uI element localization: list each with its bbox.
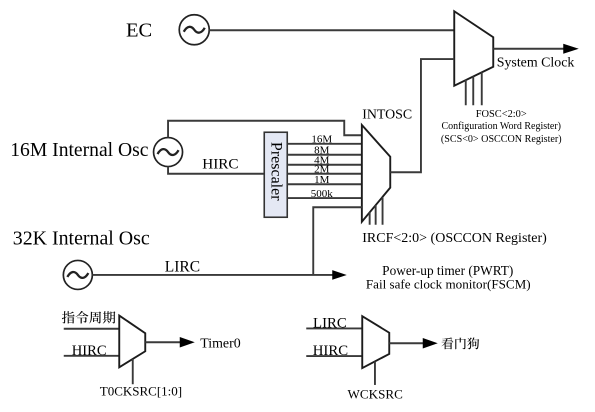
svg-text:Prescaler: Prescaler <box>267 142 284 201</box>
oscillator LIRC 32K <box>63 260 92 289</box>
wire Timer0 output <box>145 341 180 343</box>
wire HIRC to Timer0 mux <box>64 355 120 357</box>
node watchdog label (CJK) <box>442 337 480 349</box>
wire FOSC select 3 <box>481 72 483 105</box>
wire HIRC bypass to INTOSC mux <box>168 121 362 138</box>
svg-text:Timer0: Timer0 <box>200 336 240 351</box>
svg-text:WCKSRC: WCKSRC <box>348 387 404 402</box>
node instruction-cycle label (CJK) <box>62 311 116 324</box>
svg-text:HIRC: HIRC <box>202 156 238 173</box>
arrow Timer0 <box>180 337 195 348</box>
wire 8M tap <box>287 154 362 156</box>
svg-text:FOSC<2:0>: FOSC<2:0> <box>476 109 527 120</box>
wire instruction cycle to Timer0 mux <box>64 328 120 330</box>
wire watchdog output <box>389 342 423 344</box>
wire HIRC to WDT mux <box>306 355 362 357</box>
prescaler block <box>264 132 287 217</box>
svg-text:Configuration Word Register): Configuration Word Register) <box>441 121 561 132</box>
wire IRCF select 1 <box>369 212 371 225</box>
svg-text:32K Internal Osc: 32K Internal Osc <box>13 227 150 249</box>
oscillator HIRC 16M <box>154 138 183 167</box>
wire IRCF select 3 <box>382 197 384 225</box>
wire 1M tap <box>287 183 362 185</box>
wire FOSC select 2 <box>472 76 474 105</box>
svg-text:T0CKSRC[1:0]: T0CKSRC[1:0] <box>100 383 182 398</box>
svg-text:IRCF<2:0> (OSCCON Register): IRCF<2:0> (OSCCON Register) <box>362 231 547 246</box>
mux U3 Timer0 clock <box>119 316 145 368</box>
arrow watchdog <box>423 338 438 349</box>
oscillator EC <box>179 15 209 45</box>
mux U2 INTOSC <box>362 125 390 222</box>
svg-text:System Clock: System Clock <box>497 55 575 70</box>
arrow LIRC to PWRT/FSCM <box>332 270 347 280</box>
wire 16M tap <box>287 143 362 145</box>
wire system clock output <box>493 48 564 50</box>
mux U1 system clock <box>454 11 493 86</box>
wire WCKSRC select <box>374 361 376 385</box>
svg-text:LIRC: LIRC <box>165 258 200 275</box>
wire T0CKSRC select <box>132 359 134 384</box>
wire HIRC to prescaler <box>168 167 264 174</box>
svg-text:INTOSC: INTOSC <box>362 107 412 122</box>
wire INTOSC output to system mux <box>390 59 454 172</box>
wire LIRC <box>92 274 332 276</box>
wire 500k tap <box>287 197 362 199</box>
svg-text:16M Internal Osc: 16M Internal Osc <box>10 140 149 161</box>
wire EC to system mux <box>209 29 454 31</box>
svg-text:Fail safe clock monitor(FSCM): Fail safe clock monitor(FSCM) <box>366 276 531 291</box>
svg-text:1M: 1M <box>314 174 330 186</box>
svg-text:EC: EC <box>126 19 152 41</box>
wire FOSC select 1 <box>465 80 467 106</box>
wire LIRC to WDT mux <box>306 327 362 329</box>
arrow system clock <box>563 44 579 54</box>
svg-text:(SCS<0> OSCCON Register): (SCS<0> OSCCON Register) <box>441 134 562 145</box>
wire 4M tap <box>287 164 362 166</box>
wire IRCF select 2 <box>375 205 377 225</box>
svg-text:500k: 500k <box>311 188 334 200</box>
mux U4 watchdog clock <box>362 316 389 368</box>
wire 2M tap <box>287 173 362 175</box>
wire LIRC branch to INTOSC mux <box>313 207 362 275</box>
